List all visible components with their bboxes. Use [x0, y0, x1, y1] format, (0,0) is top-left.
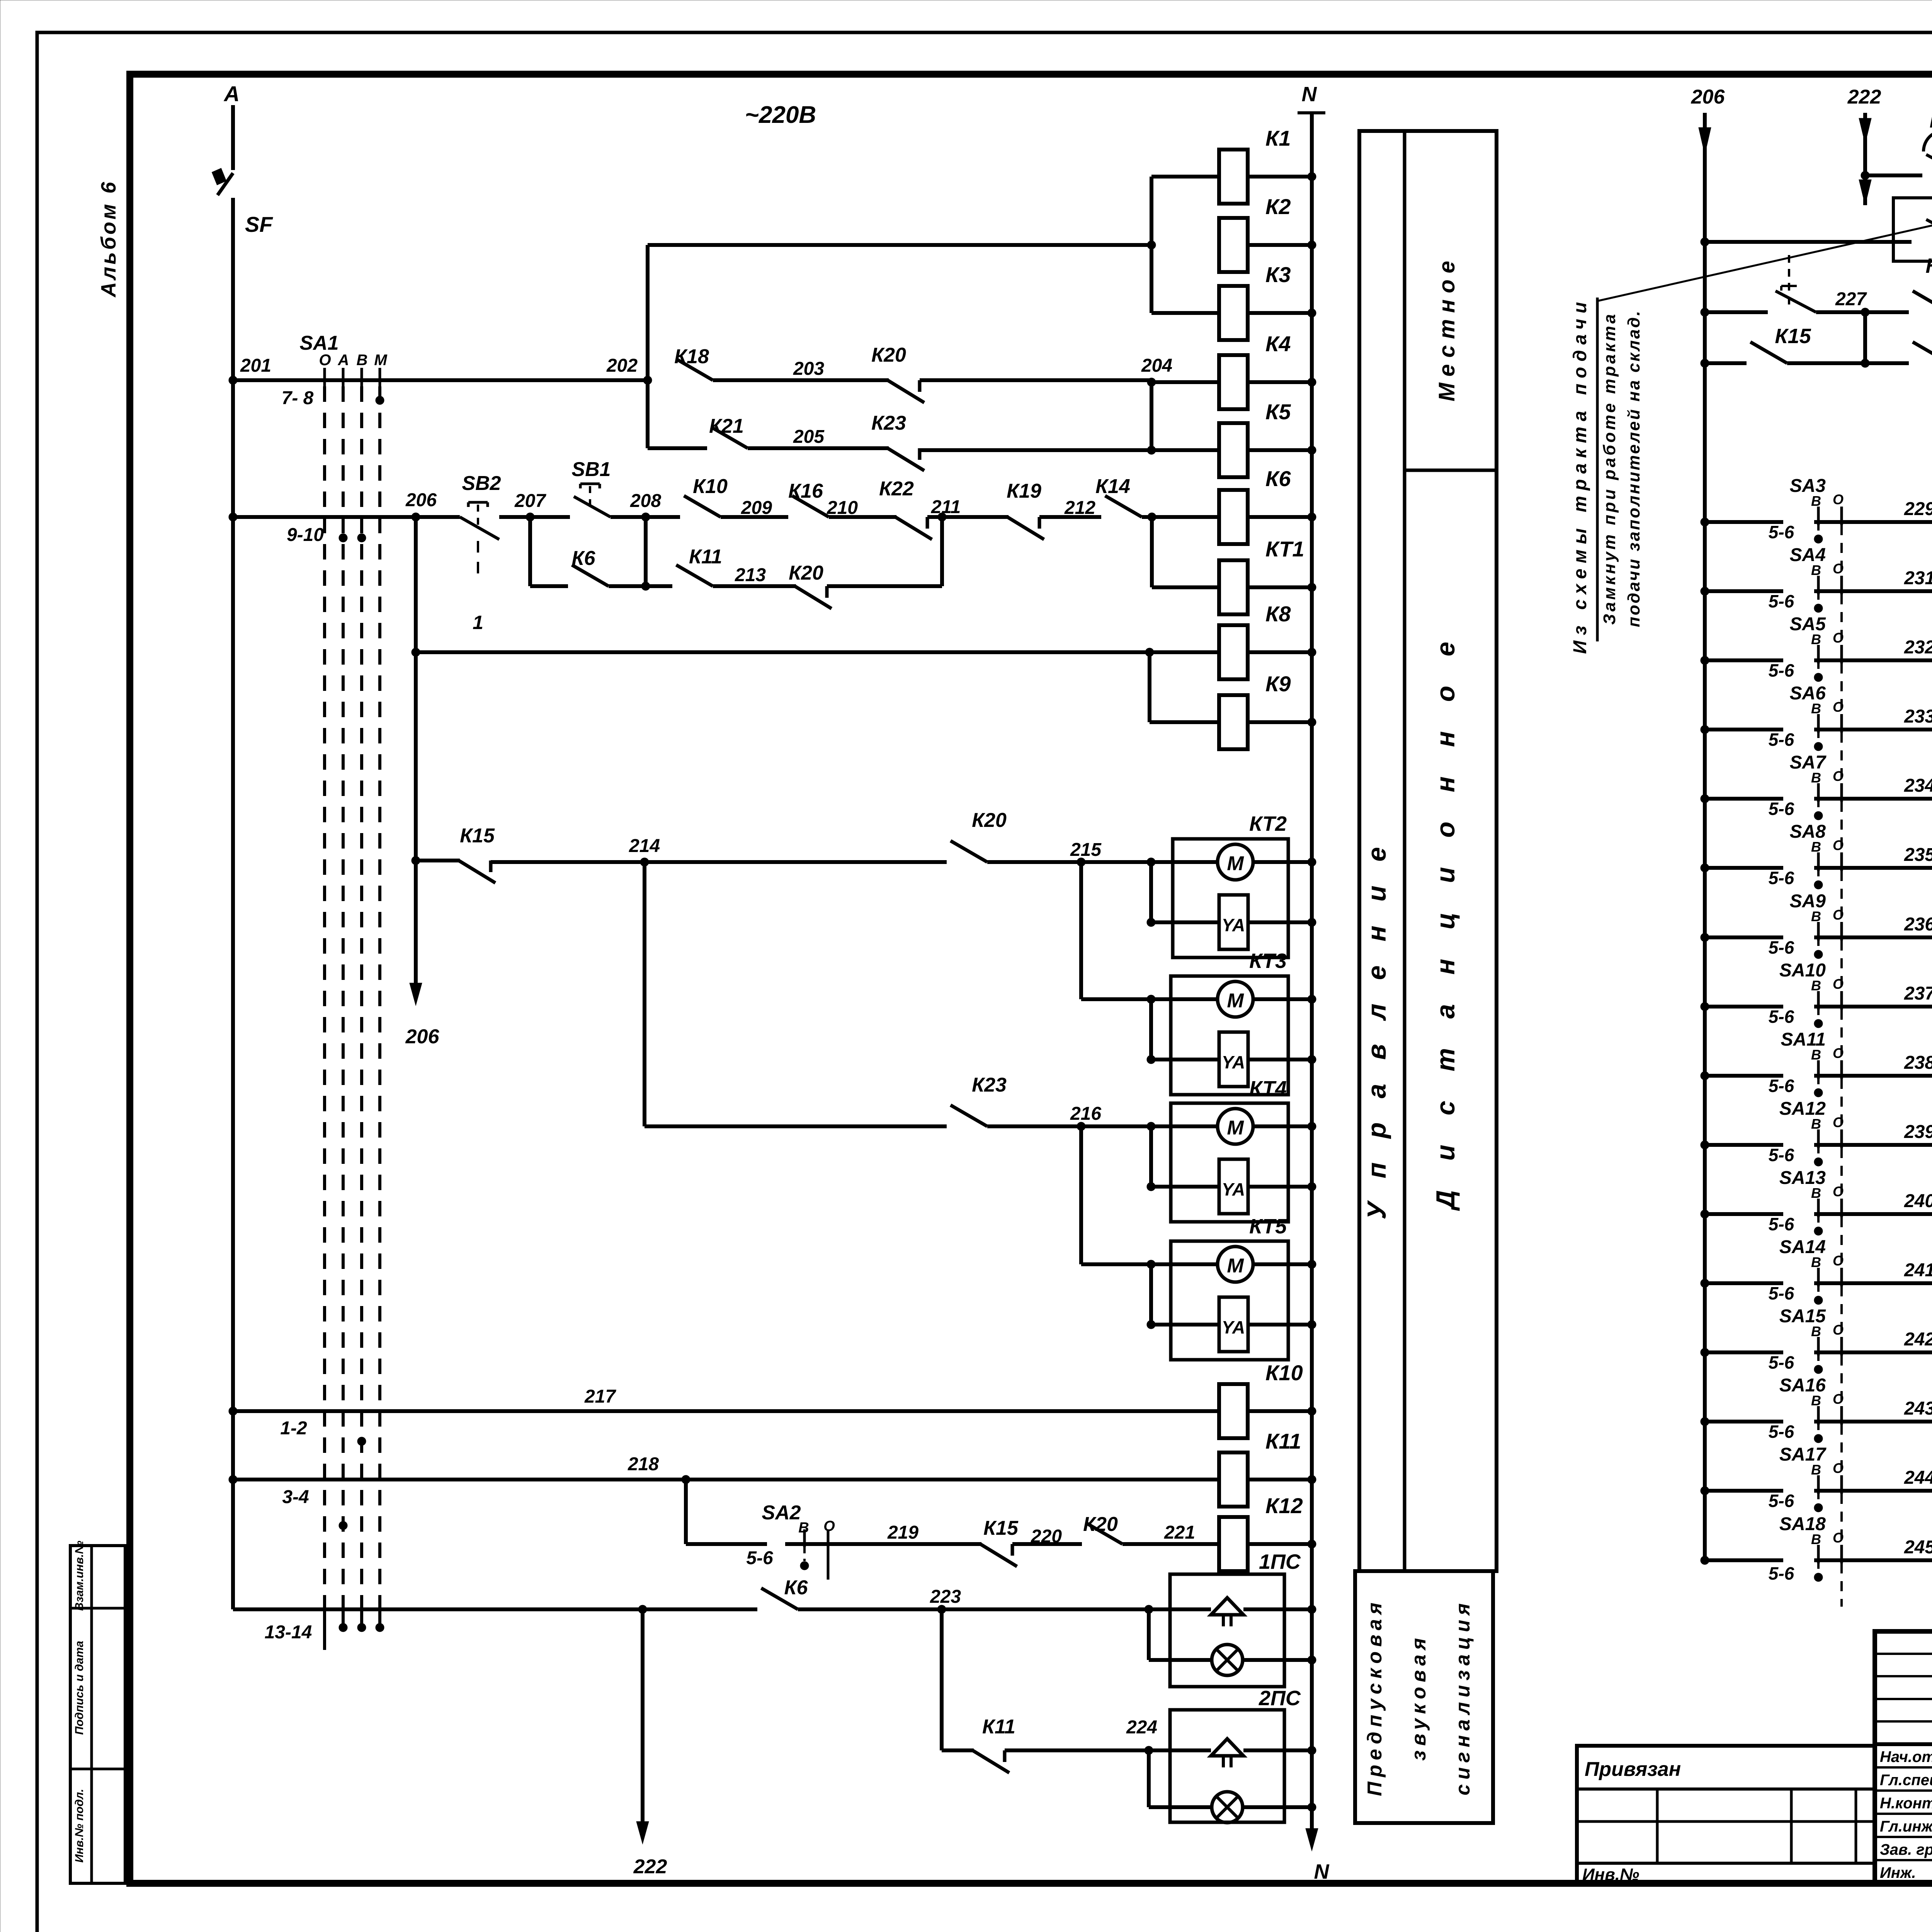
- node 208 junction: [641, 513, 650, 521]
- vertical up to node 211: [940, 517, 944, 586]
- svg-text:В: В: [1811, 1047, 1821, 1063]
- wire: K21 rung from 202 vertical: [648, 446, 707, 450]
- svg-text:О: О: [1833, 561, 1844, 577]
- wire KT5 YA to N: [1248, 1323, 1312, 1327]
- node K15-rung junction on bus 206: [1701, 359, 1709, 367]
- svg-text:КТ1: КТ1: [1930, 109, 1932, 132]
- switch SA18 row 16: [1701, 1556, 1709, 1565]
- wire 236: [1851, 935, 1932, 939]
- node for K9 branch: [1145, 648, 1154, 656]
- title block frame: [1875, 1631, 1932, 1883]
- svg-text:В: В: [357, 352, 368, 369]
- relay coil K10: [1219, 1384, 1248, 1438]
- wire: stub to K3: [1151, 311, 1219, 315]
- svg-text:213: 213: [735, 565, 766, 585]
- svg-text:Взам.инв.№: Взам.инв.№: [73, 1541, 86, 1611]
- KT3 coil YA: [1151, 1058, 1219, 1061]
- svg-text:К16: К16: [788, 480, 823, 502]
- svg-text:~220В: ~220В: [745, 102, 816, 128]
- svg-text:К5: К5: [1265, 400, 1291, 424]
- node 1-2 junction on bus A: [229, 1407, 237, 1415]
- door switch contact (dashed link): [1776, 291, 1816, 312]
- wire KT4 YA to N: [1248, 1185, 1312, 1189]
- wire: K15 rung: [416, 859, 460, 862]
- wire: 205 to K5 node: [920, 448, 1151, 452]
- svg-text:208: 208: [630, 491, 661, 511]
- vertical 223 to K11 rung: [940, 1609, 944, 1750]
- svg-text:В: В: [1811, 1393, 1821, 1408]
- vertical 215 to KT3: [1079, 862, 1083, 999]
- svg-text:М: М: [1227, 990, 1244, 1012]
- wire K10 to N: [1248, 1409, 1312, 1413]
- svg-text:222: 222: [633, 1855, 667, 1878]
- svg-text:Из схемы тракта подачи: Из схемы тракта подачи: [1570, 297, 1590, 654]
- leader line to K20 box: [1597, 219, 1932, 301]
- svg-text:К10: К10: [693, 475, 728, 498]
- svg-text:5-6: 5-6: [1769, 660, 1794, 680]
- wire: bus A main vertical: [231, 198, 235, 1609]
- KT4 coil YA: [1151, 1185, 1219, 1189]
- svg-text:235: 235: [1904, 845, 1932, 865]
- wire 221 to coil K12: [1122, 1542, 1219, 1546]
- wire horn to N: [1243, 1607, 1312, 1611]
- svg-text:Замкнут при работе тракта: Замкнут при работе тракта: [1600, 312, 1619, 625]
- wire: K9 rung: [1150, 720, 1219, 724]
- svg-text:209: 209: [741, 498, 772, 518]
- svg-text:М: М: [1227, 1255, 1244, 1277]
- svg-text:В: В: [1811, 1254, 1821, 1270]
- wire KT5 M rung: [1081, 1262, 1218, 1266]
- svg-text:241: 241: [1904, 1260, 1932, 1281]
- svg-text:В: В: [1811, 908, 1821, 924]
- wire 204 to node: [920, 378, 1151, 382]
- wire 232: [1851, 658, 1932, 662]
- time relay KT1 feed vertical: [1150, 517, 1154, 587]
- wire 227: [1816, 310, 1909, 314]
- wire: stub to K1: [1151, 175, 1219, 179]
- wire K5 to N: [1248, 448, 1312, 452]
- svg-text:211: 211: [931, 497, 961, 517]
- svg-text:Н.контр.: Н.контр.: [1880, 1795, 1932, 1812]
- wire K11 rung: [942, 1748, 974, 1752]
- svg-text:Дистанционное: Дистанционное: [1431, 612, 1460, 1211]
- node 9-10 junction on bus A: [229, 513, 237, 521]
- switch SA12 row 10: [1701, 1141, 1709, 1149]
- switch SA17 row 15: [1701, 1486, 1709, 1495]
- svg-text:214: 214: [629, 836, 660, 856]
- svg-text:Гл.спец.: Гл.спец.: [1880, 1772, 1932, 1789]
- svg-text:Нач.отд.: Нач.отд.: [1880, 1748, 1932, 1765]
- svg-text:О: О: [1833, 699, 1844, 715]
- KT3 motor M: [1218, 981, 1253, 1017]
- svg-text:Управление: Управление: [1362, 823, 1391, 1219]
- svg-text:1ПС: 1ПС: [1259, 1550, 1301, 1573]
- vertical 222 continuation down: [638, 1605, 647, 1614]
- node 206 junction: [412, 513, 420, 521]
- svg-text:5-6: 5-6: [1769, 1283, 1794, 1303]
- svg-text:В: В: [1811, 839, 1821, 855]
- svg-text:звуковая: звуковая: [1408, 1633, 1430, 1760]
- wire: K8 rung: [416, 650, 1219, 654]
- svg-text:5-6: 5-6: [1769, 868, 1794, 888]
- svg-text:N: N: [1302, 83, 1317, 106]
- circuit breaker SF: [212, 168, 226, 185]
- svg-text:9-10: 9-10: [287, 525, 324, 545]
- svg-text:5-6: 5-6: [1769, 1563, 1794, 1583]
- svg-text:К10: К10: [1265, 1361, 1303, 1385]
- wire 244: [1851, 1489, 1932, 1493]
- wire to 208 vertical: [609, 584, 672, 588]
- svg-text:5-6: 5-6: [1769, 591, 1794, 611]
- svg-text:подачи заполнителей на склад.: подачи заполнителей на склад.: [1624, 310, 1643, 627]
- vertical 206 drop from rung 9-10: [414, 517, 418, 989]
- KT3 inner vertical: [1149, 999, 1153, 1060]
- wire K8 to N: [1248, 650, 1312, 654]
- svg-text:М: М: [1227, 1117, 1244, 1139]
- bus 206 vertical (right section left bus): [1703, 113, 1707, 1560]
- svg-text:242: 242: [1904, 1329, 1932, 1350]
- svg-text:5-6: 5-6: [1769, 730, 1794, 750]
- svg-text:215: 215: [1070, 840, 1102, 860]
- svg-text:О: О: [1833, 630, 1844, 646]
- vertical to 1PS lamp: [1147, 1609, 1151, 1660]
- svg-text:А: А: [338, 352, 349, 369]
- switch SA7 row 5: [1701, 794, 1709, 803]
- svg-text:SA1: SA1: [299, 332, 338, 354]
- KT5 coil YA: [1151, 1323, 1219, 1327]
- svg-text:К14: К14: [1095, 475, 1130, 498]
- switch SA9 row 7: [1701, 933, 1709, 942]
- svg-text:223: 223: [930, 1587, 961, 1607]
- svg-text:КТ1: КТ1: [1265, 537, 1304, 561]
- svg-text:О: О: [1833, 1253, 1844, 1269]
- svg-text:Зав. гр.: Зав. гр.: [1880, 1841, 1932, 1858]
- svg-text:О: О: [1833, 907, 1844, 923]
- svg-text:О: О: [1833, 1460, 1844, 1476]
- svg-text:К2: К2: [1265, 194, 1291, 219]
- wire 229: [1851, 520, 1932, 524]
- relay coil K2: [1219, 218, 1248, 272]
- svg-text:О: О: [1833, 1391, 1844, 1407]
- svg-text:204: 204: [1141, 355, 1172, 376]
- svg-text:К11: К11: [689, 546, 722, 568]
- svg-text:207: 207: [514, 491, 546, 511]
- svg-text:5-6: 5-6: [1769, 1007, 1794, 1027]
- relay coil K8: [1219, 625, 1248, 679]
- node 215 junction: [1077, 858, 1085, 866]
- svg-text:243: 243: [1904, 1398, 1932, 1419]
- wire KT4 M to N: [1253, 1124, 1312, 1128]
- svg-text:К4: К4: [1265, 332, 1291, 356]
- svg-text:В: В: [1811, 770, 1821, 786]
- lamp 1PS: [1149, 1658, 1212, 1662]
- SA1 position dots: [376, 396, 384, 405]
- KT4 motor M: [1218, 1109, 1253, 1144]
- wire into horn 1PS: [1149, 1607, 1211, 1611]
- svg-text:YA: YA: [1222, 1179, 1245, 1199]
- switch SA8 row 6: [1701, 864, 1709, 872]
- svg-text:О: О: [1833, 1322, 1844, 1338]
- svg-text:5-6: 5-6: [1769, 799, 1794, 819]
- bracket vertical for K1 K2 K3: [1150, 177, 1153, 313]
- svg-text:5-6: 5-6: [1769, 1491, 1794, 1511]
- relay coil K11: [1219, 1452, 1248, 1507]
- wire 220: [1012, 1542, 1082, 1546]
- wire horn2 to N: [1243, 1748, 1312, 1752]
- node 222/225 junction: [1861, 171, 1869, 180]
- svg-text:210: 210: [827, 498, 858, 518]
- svg-text:2ПС: 2ПС: [1259, 1687, 1301, 1710]
- vertical 202 feed for K2/K21: [646, 245, 650, 448]
- wire K4 to N: [1248, 380, 1312, 384]
- wire KT2 M to N: [1253, 860, 1312, 864]
- lamp 2PS: [1149, 1805, 1212, 1809]
- svg-text:5-6: 5-6: [746, 1548, 773, 1568]
- svg-text:224: 224: [1126, 1717, 1157, 1738]
- svg-text:К15: К15: [1775, 325, 1811, 348]
- svg-text:229: 229: [1904, 499, 1932, 519]
- wire: K2 feed rung: [648, 243, 1151, 247]
- svg-text:В: В: [1811, 493, 1821, 509]
- svg-text:SA2: SA2: [762, 1502, 801, 1524]
- wire KT1 to N: [1248, 585, 1312, 589]
- KT2 coil YA: [1151, 920, 1219, 924]
- wire 214: [491, 860, 947, 864]
- svg-text:В: В: [1811, 978, 1821, 993]
- wire to node 227 vertical: [1787, 361, 1909, 365]
- relay coil K4: [1219, 355, 1248, 409]
- svg-text:217: 217: [584, 1386, 616, 1407]
- svg-text:238: 238: [1904, 1053, 1932, 1073]
- svg-text:Альбом 6: Альбом 6: [97, 180, 120, 298]
- node 211 junction: [938, 513, 946, 521]
- svg-text:О: О: [1833, 1530, 1844, 1546]
- wire 205: [748, 446, 889, 450]
- svg-text:205: 205: [793, 427, 825, 447]
- switch SA14 row 12: [1701, 1279, 1709, 1287]
- wire 240: [1851, 1212, 1932, 1216]
- svg-text:КТ2: КТ2: [1249, 812, 1287, 835]
- wire 222 vertical: [1863, 113, 1867, 205]
- svg-text:221: 221: [1164, 1522, 1195, 1543]
- svg-text:201: 201: [240, 355, 271, 376]
- relay coil K12: [1219, 1517, 1248, 1571]
- wire 211: [927, 515, 1009, 519]
- switch SA16 row 14: [1701, 1417, 1709, 1426]
- wire K9 to N: [1248, 720, 1312, 724]
- svg-text:1-2: 1-2: [280, 1418, 307, 1439]
- svg-text:13-14: 13-14: [265, 1622, 312, 1643]
- svg-text:М: М: [1227, 852, 1244, 875]
- vertical 227 to 940: [1863, 312, 1867, 363]
- wire 216: [987, 1124, 1218, 1128]
- svg-text:В: В: [1811, 1462, 1821, 1478]
- switch SA10 row 8: [1701, 1002, 1709, 1011]
- wire 235: [1851, 866, 1932, 870]
- wire rung 226 start: [1705, 240, 1912, 244]
- svg-text:Инв.№ подл.: Инв.№ подл.: [73, 1789, 86, 1862]
- time relay block KT4: [1171, 1103, 1288, 1222]
- svg-text:К11: К11: [1265, 1429, 1301, 1453]
- wire rung 222: [233, 1607, 757, 1611]
- switch SA6 row 4: [1701, 725, 1709, 734]
- svg-text:В: В: [1811, 1116, 1821, 1132]
- svg-text:К20: К20: [1925, 254, 1932, 277]
- svg-text:КТ5: КТ5: [1249, 1215, 1287, 1238]
- wire 207: [499, 515, 570, 519]
- node 226 junction on bus 206: [1701, 238, 1709, 246]
- wire 245: [1851, 1558, 1932, 1562]
- svg-text:5-6: 5-6: [1769, 1214, 1794, 1234]
- time relay block KT2: [1173, 839, 1288, 957]
- node 227-rung junction on bus 206: [1701, 308, 1709, 316]
- relay coil K5: [1219, 423, 1248, 477]
- svg-text:220: 220: [1031, 1526, 1062, 1547]
- svg-text:244: 244: [1904, 1468, 1932, 1488]
- time relay block KT3: [1171, 976, 1288, 1095]
- svg-text:К8: К8: [1265, 602, 1291, 626]
- node 201 junction: [229, 376, 237, 384]
- svg-text:КТ3: КТ3: [1249, 949, 1287, 973]
- legend box: prestart sound signal: [1355, 1571, 1493, 1823]
- time relay coil KT1: [1219, 560, 1248, 614]
- svg-text:К18: К18: [674, 345, 709, 368]
- svg-text:О: О: [1833, 1045, 1844, 1061]
- svg-text:YA: YA: [1222, 1052, 1245, 1072]
- node 218 junction: [682, 1475, 690, 1484]
- vertical from node 208: [644, 517, 648, 586]
- svg-text:О: О: [319, 352, 331, 369]
- svg-text:206: 206: [1691, 86, 1725, 108]
- wire 231: [1851, 589, 1932, 593]
- wire KT3 YA to N: [1248, 1058, 1312, 1061]
- svg-text:233: 233: [1904, 706, 1932, 727]
- wire K1 to N: [1248, 175, 1312, 179]
- switch SA13 row 11: [1701, 1210, 1709, 1218]
- wire rung 219 left: [686, 1542, 767, 1546]
- wire 213: [713, 584, 796, 588]
- svg-text:Предпусковая: Предпусковая: [1364, 1598, 1386, 1796]
- node 207 junction: [526, 513, 534, 521]
- svg-text:КТ4: КТ4: [1249, 1077, 1287, 1100]
- svg-text:YA: YA: [1222, 1317, 1245, 1337]
- node 3-4 junction on bus A: [229, 1475, 237, 1484]
- svg-text:К6: К6: [784, 1577, 808, 1599]
- vertical to K9 rung: [1148, 652, 1151, 722]
- wire: K23 rung from 214: [643, 862, 646, 1126]
- svg-text:К19: К19: [1007, 480, 1041, 502]
- svg-text:В: В: [1811, 562, 1821, 578]
- switch SA5 row 3: [1701, 656, 1709, 665]
- wire: rung 9-10 start: [233, 515, 460, 519]
- wire 215: [987, 860, 1218, 864]
- svg-text:О: О: [1833, 768, 1844, 784]
- svg-text:236: 236: [1904, 914, 1932, 935]
- wire 241: [1851, 1281, 1932, 1285]
- vertical to 2PS lamp: [1147, 1750, 1151, 1807]
- node 204 junction: [1147, 378, 1156, 386]
- svg-text:222: 222: [1847, 86, 1881, 108]
- vertical 216 to KT5: [1079, 1126, 1083, 1264]
- svg-text:А: А: [223, 82, 240, 106]
- svg-text:О: О: [1833, 1184, 1844, 1199]
- wire 223: [798, 1607, 1149, 1611]
- svg-text:SB2: SB2: [462, 472, 501, 495]
- bypass: vertical from node 207: [528, 517, 532, 586]
- switch SA15 row 13: [1701, 1348, 1709, 1357]
- junction on 206 drop for K15 rung: [412, 856, 420, 865]
- wire 208: [611, 515, 680, 519]
- legend box: control modes: [1359, 131, 1497, 1571]
- KT5 motor M: [1218, 1247, 1253, 1282]
- svg-text:Инж.: Инж.: [1880, 1864, 1916, 1881]
- wire into horn 2PS: [1149, 1748, 1211, 1752]
- wire 224: [1005, 1748, 1149, 1752]
- wire: rung 218 to coil K11: [233, 1478, 1219, 1481]
- svg-text:В: В: [1811, 631, 1821, 647]
- signal box 1PS: [1170, 1574, 1284, 1687]
- svg-text:В: В: [1811, 1323, 1821, 1339]
- svg-text:206: 206: [405, 490, 437, 510]
- horn 2PS: [1211, 1739, 1243, 1756]
- svg-text:237: 237: [1904, 983, 1932, 1004]
- svg-text:О: О: [1833, 492, 1844, 507]
- node 223 junction: [937, 1605, 946, 1614]
- node 227 junction: [1861, 308, 1869, 316]
- svg-text:234: 234: [1904, 776, 1932, 796]
- svg-text:203: 203: [793, 359, 824, 379]
- svg-text:К9: К9: [1265, 672, 1291, 696]
- svg-text:О: О: [1833, 1114, 1844, 1130]
- svg-text:В: В: [1811, 1531, 1821, 1547]
- KT4 inner vertical: [1147, 1122, 1155, 1131]
- svg-text:Привязан: Привязан: [1585, 1758, 1681, 1781]
- node at 1PS horn: [1145, 1605, 1153, 1614]
- svg-text:218: 218: [628, 1454, 659, 1475]
- svg-text:N: N: [1314, 1860, 1330, 1883]
- svg-text:К1: К1: [1265, 126, 1291, 150]
- node 214 junction: [640, 858, 649, 866]
- node KT1 feed junction: [1148, 513, 1156, 521]
- svg-text:SF: SF: [245, 212, 273, 236]
- svg-text:5-6: 5-6: [1769, 1352, 1794, 1372]
- svg-text:Гл.инж.пр: Гл.инж.пр: [1880, 1818, 1932, 1835]
- wire lamp to N: [1243, 1658, 1312, 1662]
- svg-text:О: О: [1833, 837, 1844, 853]
- svg-text:219: 219: [887, 1522, 918, 1543]
- svg-text:Подпись и дата: Подпись и дата: [73, 1641, 86, 1735]
- wire 212: [1039, 515, 1101, 519]
- vertical 218 to rung 219: [684, 1480, 688, 1544]
- svg-text:К20: К20: [972, 809, 1007, 832]
- svg-text:SB1: SB1: [571, 458, 611, 481]
- svg-text:5-6: 5-6: [1769, 937, 1794, 957]
- svg-text:YA: YA: [1222, 915, 1245, 935]
- svg-text:В: В: [1811, 1185, 1821, 1201]
- wire K11 to N: [1248, 1478, 1312, 1481]
- svg-text:В: В: [1811, 701, 1821, 716]
- svg-text:1: 1: [473, 612, 483, 633]
- svg-text:206: 206: [405, 1026, 440, 1048]
- svg-text:231: 231: [1904, 568, 1932, 588]
- svg-text:К3: К3: [1265, 262, 1291, 287]
- vertical node204 to K5 rung: [1150, 382, 1153, 450]
- wire KT2 YA to N: [1248, 920, 1312, 924]
- relay coil K6: [1219, 490, 1248, 544]
- wire: bus A upper segment: [231, 105, 235, 170]
- SA1 dashed columns: [323, 386, 326, 1609]
- wire 234: [1851, 797, 1932, 801]
